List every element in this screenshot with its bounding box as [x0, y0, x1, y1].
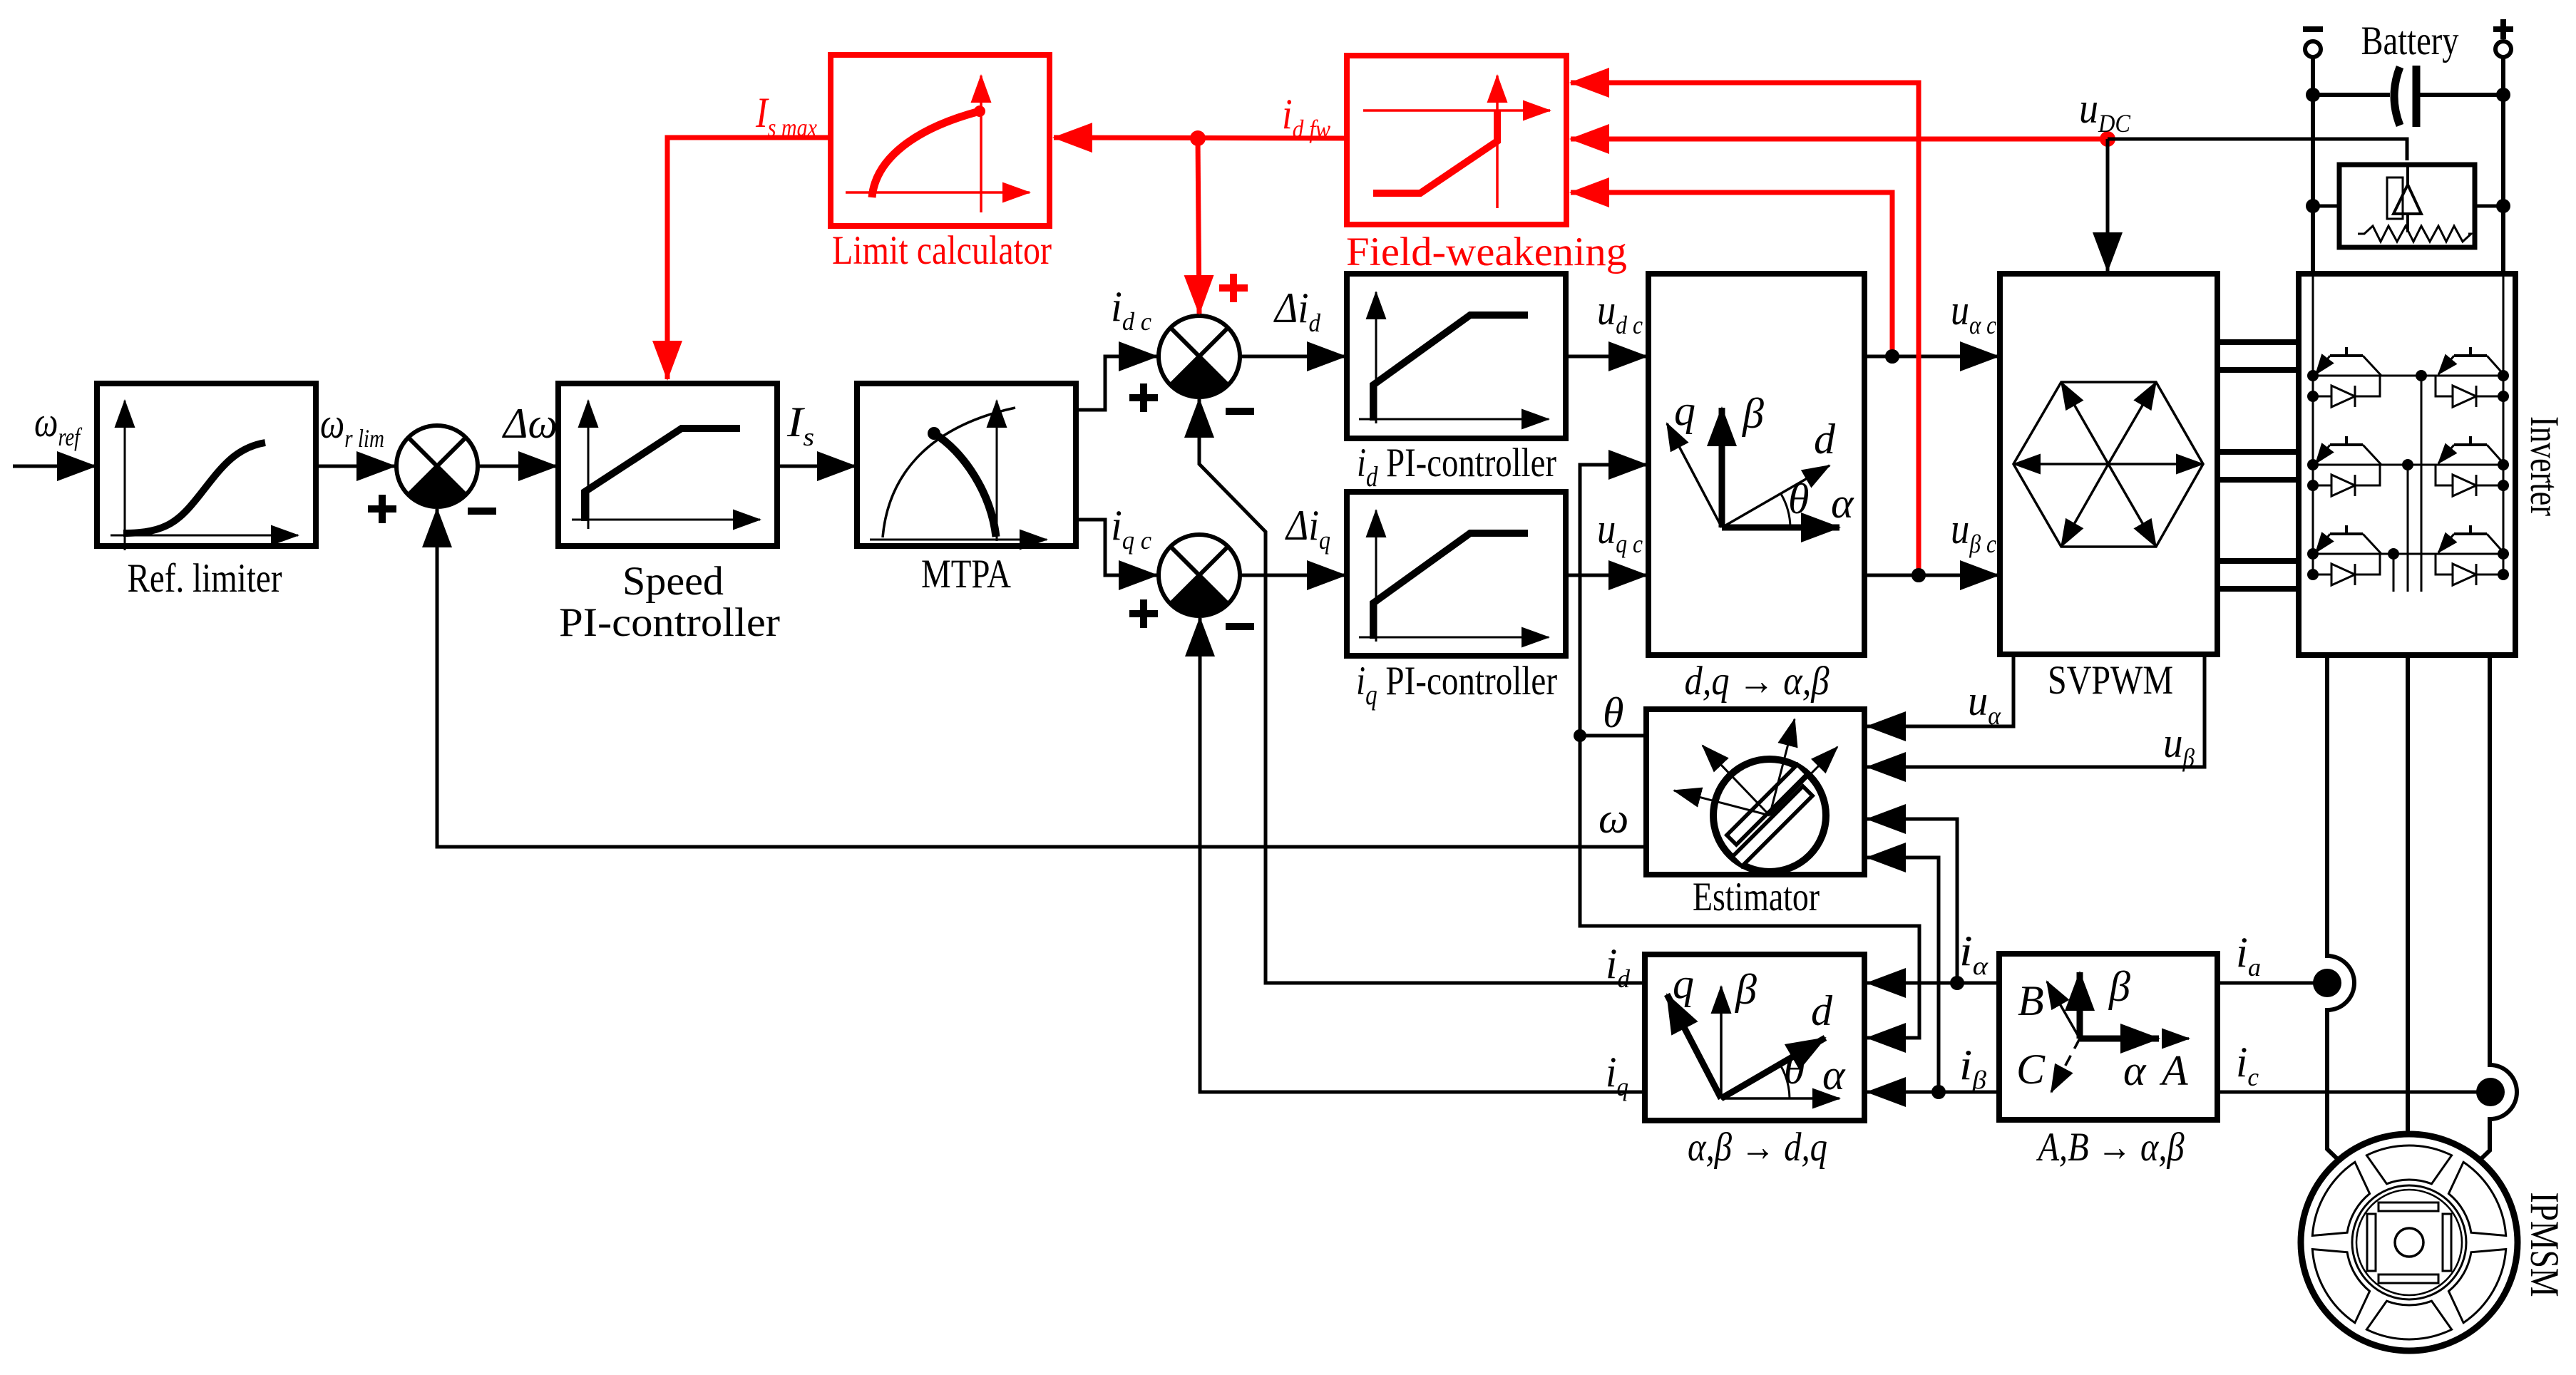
- svg-text:β: β: [2108, 963, 2130, 1010]
- inverter phase line row 1: [2313, 375, 2503, 377]
- transistor Q2: [2438, 347, 2505, 376]
- wire I_s_max limit calculator to speed PI: [667, 138, 831, 379]
- diode D4: [2436, 465, 2503, 496]
- svg-text:Speed: Speed: [622, 559, 724, 604]
- wire S3 to i_q PI: [1240, 574, 1345, 577]
- inverter phase tap row 2: [2407, 465, 2409, 592]
- wire i_a to transform: [2217, 982, 2317, 985]
- block SVPWM: [2000, 274, 2217, 654]
- wire u_DC sense line: [2108, 139, 2407, 160]
- summing junction S1 speed error: [396, 426, 478, 507]
- junction dot u_alpha_c: [1885, 349, 1899, 364]
- svg-text:Field-weakening: Field-weakening: [1346, 230, 1627, 274]
- block alpha-beta to dq transform: [1645, 954, 1864, 1121]
- svg-text:Ref. limiter: Ref. limiter: [128, 556, 282, 601]
- svg-text:θ: θ: [1603, 689, 1623, 736]
- label plus S1: [368, 495, 396, 523]
- junction dots left bus row 3: [2307, 548, 2319, 580]
- inverter phase tap row 3: [2393, 554, 2395, 592]
- svg-text:q: q: [1674, 387, 1695, 434]
- svg-text:d: d: [1811, 987, 1833, 1034]
- wire DC link top bus: [2313, 93, 2503, 97]
- summing junction S3 i_q error: [1159, 535, 1240, 616]
- label Speed PI-controller: [559, 559, 780, 645]
- junction dots right bus row 1: [2498, 370, 2509, 402]
- inverter phase junction dot row 3: [2388, 548, 2399, 560]
- wire i_beta to estimator: [1867, 858, 1939, 1092]
- svg-text:β: β: [1735, 966, 1757, 1013]
- block Limit calculator: [831, 55, 1050, 226]
- wire i_c to transform: [2217, 1091, 2480, 1094]
- red junction dot u_DC: [2100, 131, 2115, 147]
- junction dots right bus row 3: [2498, 548, 2509, 580]
- inverter phase junction dot row 2: [2402, 459, 2413, 470]
- svg-text:ω: ω: [1599, 795, 1628, 842]
- svg-text:C: C: [2016, 1046, 2046, 1093]
- label plus S3 left: [1129, 599, 1158, 628]
- svg-text:Limit calculator: Limit calculator: [832, 228, 1052, 273]
- svg-text:A,B → α,β: A,B → α,β: [2036, 1125, 2185, 1170]
- svg-text:α: α: [2123, 1047, 2147, 1094]
- wire DC bus negative rail: [2311, 57, 2315, 274]
- wire u_alpha_c feedback to field weakening: [1571, 192, 1892, 356]
- junction dot DC bus right: [2496, 88, 2510, 102]
- battery minus terminal: [2303, 29, 2323, 57]
- wire i_d_fw down into S2: [1198, 138, 1199, 314]
- svg-text:α: α: [1831, 480, 1854, 527]
- wire theta to dq transform: [1580, 465, 1647, 736]
- svg-text:SVPWM: SVPWM: [2048, 658, 2173, 703]
- wire u_beta_c feedback to field weakening: [1571, 83, 1919, 575]
- label minus S3: [1226, 623, 1254, 630]
- inverter phase line row 2: [2313, 464, 2503, 466]
- wire i_q PI to dq transform: [1566, 574, 1647, 577]
- current sensor dot i_a: [2313, 969, 2341, 997]
- svg-text:A: A: [2159, 1047, 2188, 1094]
- junction dot brake left: [2306, 199, 2320, 213]
- wire phase A with current sensor loop: [2327, 655, 2354, 1170]
- inverter DC rails: [2313, 274, 2503, 575]
- junction dot u_beta_c repaint: [1912, 568, 1926, 582]
- inverter phase line row 3: [2313, 553, 2503, 555]
- wire u_alpha_c to SVPWM: [1864, 355, 1998, 359]
- block AB to alpha-beta transform: [1999, 954, 2217, 1120]
- svg-text:q: q: [1673, 960, 1694, 1007]
- wire u_beta_c to SVPWM: [1864, 574, 1998, 577]
- block Estimator: [1646, 709, 1864, 875]
- wire speed PI to MTPA: [777, 465, 856, 468]
- wire i_d_fw field weakening to limit calculator: [1054, 138, 1347, 138]
- wire i_beta into transform: [1867, 1091, 1999, 1094]
- wire ref limiter to summing junction: [316, 465, 395, 468]
- battery plus terminal: [2493, 19, 2513, 57]
- junction dots left bus row 2: [2307, 459, 2319, 491]
- transistor Q5: [2316, 525, 2381, 554]
- svg-text:MTPA: MTPA: [921, 552, 1011, 597]
- junction dot i_alpha: [1950, 976, 1964, 990]
- svg-text:θ: θ: [1784, 1046, 1805, 1093]
- svg-text:IPMSM: IPMSM: [2522, 1193, 2567, 1297]
- block Field-weakening: [1347, 56, 1566, 225]
- wire brake chopper right lead: [2475, 205, 2503, 208]
- block MTPA: [857, 383, 1076, 546]
- svg-text:d,q → α,β: d,q → α,β: [1685, 659, 1830, 704]
- wire u_beta from SVPWM to estimator: [1867, 654, 2205, 767]
- wire theta to alpha-beta-dq transform: [1580, 736, 1919, 1038]
- wire S2 to i_d PI: [1240, 355, 1345, 359]
- block brake chopper: [2339, 165, 2475, 247]
- svg-text:α,β → d,q: α,β → d,q: [1688, 1125, 1827, 1170]
- diode D6: [2436, 554, 2503, 585]
- transistor Q1: [2316, 347, 2381, 376]
- diode D1: [2313, 376, 2380, 407]
- wire i_d PI to dq transform: [1566, 355, 1647, 359]
- transistor Q4: [2438, 436, 2505, 465]
- wire i_d feedback into S2: [1199, 399, 1645, 983]
- svg-text:Inverter: Inverter: [2522, 416, 2567, 516]
- block Inverter: [2299, 274, 2515, 655]
- wire i_alpha to estimator: [1867, 819, 1957, 983]
- current sensor dot i_c: [2476, 1078, 2505, 1106]
- wire MTPA to S2 i_d reference: [1076, 356, 1157, 410]
- capacitor DC link: [2394, 66, 2416, 127]
- wire u_DC feedback to field weakening: [1571, 137, 2108, 142]
- svg-text:β: β: [1742, 390, 1764, 437]
- summing junction S2 i_d error: [1159, 316, 1240, 397]
- wire DC bus positive rail: [2501, 57, 2505, 274]
- diode D5: [2313, 554, 2380, 585]
- diode D3: [2313, 465, 2380, 496]
- diode D2: [2436, 376, 2503, 407]
- wire omega_ref input: [13, 465, 96, 468]
- svg-text:Battery: Battery: [2361, 19, 2459, 63]
- svg-text:θ: θ: [1788, 475, 1809, 522]
- svg-text:B: B: [2018, 977, 2044, 1024]
- wire i_alpha into transform: [1867, 982, 1999, 985]
- junction dots left bus row 1: [2307, 370, 2319, 402]
- motor IPMSM: [2301, 1134, 2518, 1351]
- junction dot u_beta_c: [1912, 568, 1926, 582]
- wire phase C with current sensor loop: [2468, 655, 2517, 1171]
- block Ref. limiter: [97, 383, 316, 550]
- wire phase B: [2406, 655, 2410, 1135]
- gate signal buses SVPWM to inverter: [2217, 342, 2299, 589]
- wire omega feedback to S1: [437, 509, 1646, 847]
- transistor Q3: [2316, 436, 2381, 465]
- junction dots right bus row 2: [2498, 459, 2509, 491]
- svg-text:α: α: [1822, 1051, 1846, 1098]
- wire u_DC to SVPWM: [2106, 139, 2110, 271]
- wire MTPA to S3 i_q reference: [1076, 520, 1157, 575]
- wire S1 to speed PI: [479, 465, 557, 468]
- svg-text:Δω: Δω: [502, 400, 558, 447]
- label red plus S2 top: [1219, 274, 1248, 302]
- svg-text:Estimator: Estimator: [1693, 875, 1820, 920]
- inverter phase junction dot row 1: [2416, 370, 2427, 381]
- label plus S2 left: [1129, 383, 1158, 412]
- inverter phase tap row 1: [2421, 376, 2423, 592]
- svg-text:PI-controller: PI-controller: [559, 600, 780, 645]
- label minus S2: [1226, 408, 1254, 415]
- svg-text:id PI-controller: id PI-controller: [1357, 441, 1556, 493]
- svg-text:d: d: [1814, 416, 1836, 463]
- junction dot brake right: [2496, 199, 2510, 213]
- junction dot i_beta: [1931, 1085, 1946, 1099]
- wire u_alpha from SVPWM to estimator: [1867, 654, 2013, 726]
- block Speed PI-controller: [558, 383, 777, 546]
- svg-text:iq PI-controller: iq PI-controller: [1356, 659, 1557, 711]
- wire theta from estimator: [1580, 734, 1646, 738]
- wire brake chopper left lead: [2313, 205, 2339, 208]
- block dq to alpha-beta transform: [1648, 274, 1864, 655]
- junction dot u_alpha_c repaint: [1885, 349, 1899, 364]
- block i_q PI-controller: [1347, 492, 1566, 656]
- junction dot theta: [1574, 729, 1586, 742]
- block i_d PI-controller: [1347, 274, 1566, 438]
- label minus S1: [468, 508, 496, 515]
- red junction dot i_d_fw: [1190, 130, 1206, 146]
- wire i_q feedback into S3: [1200, 618, 1645, 1092]
- junction dot DC bus left: [2306, 88, 2320, 102]
- transistor Q6: [2438, 525, 2505, 554]
